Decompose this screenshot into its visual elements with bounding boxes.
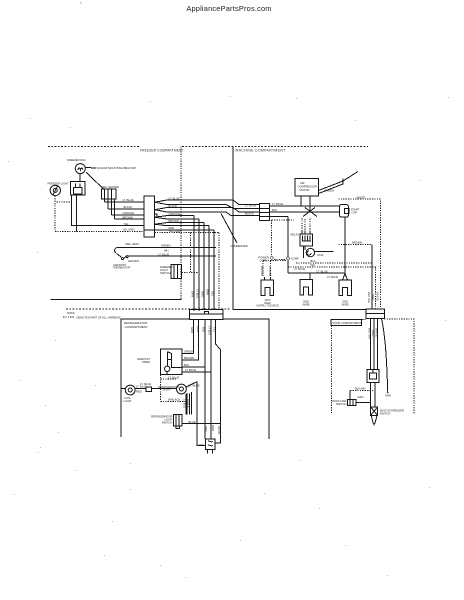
svg-text:SUPPLY SOURCE: SUPPLY SOURCE <box>256 304 279 308</box>
svg-text:ORANGE: ORANGE <box>123 211 135 215</box>
svg-text:DOOR COMPARTMENT: DOOR COMPARTMENT <box>333 321 362 325</box>
svg-text:WHITE: WHITE <box>376 292 380 301</box>
svg-text:DENOTES PART OF ALL HARNESS: DENOTES PART OF ALL HARNESS <box>77 316 121 320</box>
svg-text:LT. BLUE: LT. BLUE <box>294 267 305 271</box>
svg-text:BROWN: BROWN <box>123 215 133 219</box>
svg-text:CAP: CAP <box>352 210 358 214</box>
svg-text:AIR: AIR <box>300 181 305 185</box>
svg-text:BLK: BLK <box>184 363 189 367</box>
svg-text:LIGHT: LIGHT <box>124 399 132 403</box>
svg-text:YEL-GRN: YEL-GRN <box>123 228 135 232</box>
svg-text:SWITCH: SWITCH <box>380 412 391 416</box>
svg-text:BLACK: BLACK <box>245 211 254 215</box>
svg-text:DEF. HEATER: DEF. HEATER <box>102 185 119 189</box>
svg-text:BLK: BLK <box>202 327 206 332</box>
svg-text:LT. BLUE: LT. BLUE <box>123 198 134 202</box>
svg-text:ORG: ORG <box>204 426 208 432</box>
svg-text:GRN: GRN <box>358 395 364 399</box>
svg-text:FREEZER LIGHT: FREEZER LIGHT <box>48 181 70 185</box>
svg-text:BLACK: BLACK <box>124 205 133 209</box>
svg-text:COMPRESSOR: COMPRESSOR <box>298 185 317 189</box>
svg-text:BRN: BRN <box>196 326 200 332</box>
svg-text:RELAY: RELAY <box>291 232 300 236</box>
svg-text:COMPARTMENT: COMPARTMENT <box>125 325 148 329</box>
svg-text:WH: WH <box>311 263 316 267</box>
svg-text:AppliancePartsPros.com: AppliancePartsPros.com <box>186 4 271 13</box>
svg-text:YEL: YEL <box>211 291 215 297</box>
svg-text:WIRE: WIRE <box>302 303 309 307</box>
svg-text:FREEZER FAN: FREEZER FAN <box>67 158 86 162</box>
svg-text:W-BLACK: W-BLACK <box>168 398 180 402</box>
svg-text:REF: REF <box>199 443 205 447</box>
svg-text:WH: WH <box>164 248 169 252</box>
svg-text:LT. BLUE: LT. BLUE <box>169 196 180 200</box>
svg-text:WH BL: WH BL <box>217 426 221 435</box>
svg-text:W/ EVAP MOUNTING BRACKET: W/ EVAP MOUNTING BRACKET <box>97 166 137 170</box>
svg-text:RED: RED <box>136 390 142 394</box>
svg-text:LT BLUE: LT BLUE <box>268 266 271 276</box>
svg-text:GRN: GRN <box>385 394 391 398</box>
svg-text:MOTOR: MOTOR <box>300 188 310 192</box>
svg-text:SWITCH: SWITCH <box>162 420 173 424</box>
svg-text:TIMER: TIMER <box>142 360 150 364</box>
svg-text:CONDENSER: CONDENSER <box>231 244 248 248</box>
svg-text:MACHINE COMPARTMENT: MACHINE COMPARTMENT <box>236 149 286 153</box>
svg-text:BLACK: BLACK <box>169 204 178 208</box>
svg-text:SWITCH: SWITCH <box>336 402 347 406</box>
svg-text:HEATER: HEATER <box>128 259 139 263</box>
svg-text:LT BLU: LT BLU <box>196 289 200 298</box>
svg-text:GRN: GRN <box>190 327 194 333</box>
svg-text:THERMOSTAT: THERMOSTAT <box>113 266 131 270</box>
svg-text:WIRE: WIRE <box>341 303 348 307</box>
svg-text:LT. BLUE: LT. BLUE <box>327 275 338 279</box>
svg-text:LT BLU: LT BLU <box>208 326 212 335</box>
svg-text:WHITE: WHITE <box>375 328 379 337</box>
svg-text:BLUE: BLUE <box>189 420 196 424</box>
svg-text:GRN: GRN <box>191 291 195 297</box>
svg-text:ORANGE: ORANGE <box>169 212 181 216</box>
svg-text:LT. BLUE: LT. BLUE <box>245 203 256 207</box>
svg-text:LT. BLUE: LT. BLUE <box>317 269 328 273</box>
svg-text:YEL: YEL <box>124 222 130 226</box>
svg-text:COMP: COMP <box>291 257 299 261</box>
svg-text:BROWN: BROWN <box>352 241 362 245</box>
svg-text:GREEN: GREEN <box>184 350 194 354</box>
svg-text:LT. BLUE: LT. BLUE <box>168 375 179 379</box>
svg-text:W BLK: W BLK <box>186 399 190 408</box>
svg-text:SWITCH: SWITCH <box>160 271 171 275</box>
svg-text:WHITE: WHITE <box>357 195 366 199</box>
svg-text:LT. BLUE: LT. BLUE <box>189 384 200 388</box>
svg-text:LT. BLUE: LT. BLUE <box>272 202 283 206</box>
svg-text:GREEN: GREEN <box>161 244 171 248</box>
svg-text:YEL: YEL <box>212 327 216 333</box>
svg-text:LT. BLUE: LT. BLUE <box>185 368 196 372</box>
svg-text:BLK-WH: BLK-WH <box>260 266 263 276</box>
svg-text:BROWN: BROWN <box>169 219 179 223</box>
svg-text:RUN: RUN <box>318 253 324 257</box>
svg-text:LIGHT: LIGHT <box>163 388 171 392</box>
svg-text:LT. BLUE: LT. BLUE <box>140 382 151 386</box>
svg-text:DEF. HEAT: DEF. HEAT <box>126 242 140 246</box>
svg-text:LT. BLUE: LT. BLUE <box>158 252 169 256</box>
svg-text:FREEZER COMPARTMENT: FREEZER COMPARTMENT <box>140 148 184 152</box>
svg-text:BLK: BLK <box>311 259 316 263</box>
svg-text:BROWN: BROWN <box>184 356 194 360</box>
svg-text:NOTE:: NOTE: <box>67 311 75 315</box>
svg-text:BLK-WH: BLK-WH <box>355 386 366 390</box>
svg-text:BLK: BLK <box>272 208 277 212</box>
svg-text:BRN: BRN <box>211 425 215 431</box>
svg-text:ORG: ORG <box>201 291 205 297</box>
svg-text:BRN: BRN <box>206 289 210 295</box>
svg-text:GREEN: GREEN <box>325 189 335 193</box>
svg-text:YEL-GRN: YEL-GRN <box>169 229 181 233</box>
